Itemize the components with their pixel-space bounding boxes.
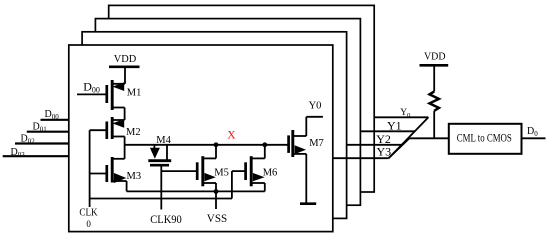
svg-text:M1: M1 xyxy=(127,87,142,98)
svg-text:CLK90: CLK90 xyxy=(150,212,182,226)
combiner slant edge outer xyxy=(389,117,429,158)
svg-text:0: 0 xyxy=(86,219,91,229)
resistor R1 xyxy=(430,92,439,111)
wire Y0 to combiner xyxy=(375,116,429,118)
transistor M5 xyxy=(197,156,216,186)
svg-text:M6: M6 xyxy=(263,167,278,178)
wire M6 source to VSS rail xyxy=(264,183,266,191)
label Y0 (inside slice) xyxy=(309,100,322,111)
label CLK0 xyxy=(79,208,98,229)
transistor M1 xyxy=(107,80,125,110)
wire M2 drain down to M3 xyxy=(124,137,126,159)
wire M3 source to VSS rail xyxy=(126,181,128,191)
D00 gate label at M1 xyxy=(83,79,100,94)
svg-text:M4: M4 xyxy=(156,135,171,146)
slice box 4 (backmost) xyxy=(109,5,375,192)
label M7 xyxy=(309,138,324,149)
junction M5 drain on X xyxy=(214,142,219,147)
wire CLK90 stem xyxy=(160,165,162,209)
svg-text:X: X xyxy=(227,130,236,142)
wire M5 source to VSS rail xyxy=(215,183,217,191)
label VSS xyxy=(207,211,227,225)
svg-text:M3: M3 xyxy=(127,171,142,182)
wire Y1 to combiner xyxy=(361,130,415,132)
transistor M2 xyxy=(107,117,125,139)
wire input D01 xyxy=(27,131,69,133)
wire Y3 to combiner xyxy=(333,157,388,159)
svg-text:Y3: Y3 xyxy=(377,144,392,158)
wire D00 to M1 gate xyxy=(77,93,107,95)
label Y2 xyxy=(376,132,391,146)
svg-text:VDD: VDD xyxy=(424,52,446,63)
svg-text:M2: M2 xyxy=(126,127,141,138)
transistor M4 (rotated) xyxy=(148,145,171,165)
label M3 xyxy=(127,171,142,182)
power VDD (right) xyxy=(420,52,449,92)
label M2 xyxy=(126,127,141,138)
svg-text:VDD: VDD xyxy=(114,54,137,65)
wire resistor to output node xyxy=(433,111,435,139)
wire CLK0 to M3 gate xyxy=(90,173,107,175)
svg-text:CML to CMOS: CML to CMOS xyxy=(457,133,512,145)
junction VSS on rail xyxy=(214,189,219,194)
label Y3 xyxy=(377,144,392,158)
svg-text:M5: M5 xyxy=(214,167,229,178)
svg-text:Y1: Y1 xyxy=(387,119,402,133)
slice box 1 (front) xyxy=(69,45,333,232)
power VDD (left, inside slice) xyxy=(109,54,140,84)
VSS rail xyxy=(127,190,265,192)
input D03 label xyxy=(11,147,26,159)
label M5 xyxy=(214,167,229,178)
wire VSS stem xyxy=(215,191,217,209)
label Y1 xyxy=(387,119,402,133)
combiner slant edge inner xyxy=(389,138,410,158)
svg-text:Y0: Y0 xyxy=(309,100,322,111)
wire M6 drain to node X xyxy=(264,145,266,159)
wire CLK0 branch to M6 gate xyxy=(232,171,246,198)
label D0 xyxy=(527,126,538,138)
wire combiner output xyxy=(409,137,449,139)
transistor M6 xyxy=(246,156,265,186)
wire CLK0 to M2 gate xyxy=(90,129,107,131)
transistor M3 xyxy=(107,157,127,183)
wire M7 source down xyxy=(305,154,307,204)
transistor M7 xyxy=(289,130,307,157)
label M4 xyxy=(156,135,171,146)
node X wire (M2/M3 junction to M7 gate) xyxy=(125,144,289,146)
wire Y2 to combiner xyxy=(347,144,402,146)
wire input D02 xyxy=(15,142,69,144)
wire CLK0 rail to M6 xyxy=(90,198,232,200)
svg-text:CLK: CLK xyxy=(79,208,98,219)
input D01 label xyxy=(33,122,48,134)
slice box 2 xyxy=(82,32,347,219)
label Y0 (combiner) xyxy=(400,108,410,119)
wire M7 drain to Y0 xyxy=(306,117,323,136)
wire M5 drain to node X xyxy=(215,145,217,159)
input D00 label xyxy=(45,109,60,121)
input D02 label xyxy=(21,134,36,146)
label CLK90 xyxy=(150,212,182,226)
label M1 xyxy=(127,87,142,98)
terminal bar at M7 source xyxy=(300,202,316,205)
wire input D03 xyxy=(3,155,69,157)
slice box 3 xyxy=(95,19,360,206)
wire CLK90 to M5 gate xyxy=(161,170,197,172)
svg-text:M7: M7 xyxy=(309,138,324,149)
wire output D0 xyxy=(522,137,546,139)
junction M6 drain on X xyxy=(262,142,267,147)
svg-text:VSS: VSS xyxy=(207,211,227,225)
node X label xyxy=(227,130,236,142)
wire M1 drain to M2 xyxy=(124,108,126,121)
wire CLK0 stem xyxy=(89,130,91,207)
block CML to CMOS xyxy=(449,124,522,154)
wire input D00 xyxy=(41,119,70,121)
label M6 xyxy=(263,167,278,178)
